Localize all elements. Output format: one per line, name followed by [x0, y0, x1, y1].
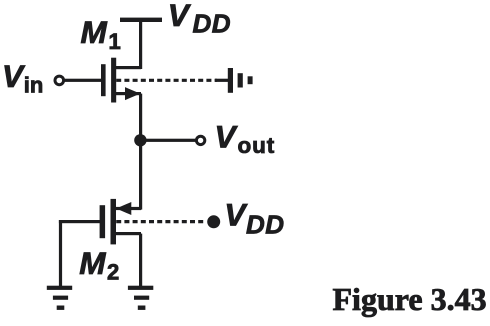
wire Vin to M1 gate: [64, 79, 102, 82]
transistor M1 (NMOS): [101, 58, 141, 103]
svg-text:V: V: [168, 0, 192, 33]
svg-text:DD: DD: [193, 9, 232, 39]
label VDD (M2 bulk): [224, 197, 284, 240]
wire M2 drain to ground: [139, 234, 142, 287]
svg-text:M: M: [79, 245, 106, 281]
wire M2 gate lead: [59, 220, 101, 223]
ground (left, M2 gate): [47, 286, 72, 310]
svg-text:in: in: [24, 72, 44, 97]
terminal Vin (open circle): [55, 76, 64, 85]
svg-text:M: M: [81, 14, 108, 50]
bulk wire of M1 (dashed): [116, 79, 228, 82]
wire M2 gate to ground: [59, 220, 62, 286]
svg-text:V: V: [224, 197, 248, 233]
svg-text:DD: DD: [246, 209, 285, 239]
label Vin: [2, 58, 43, 98]
node Vout (junction dot): [134, 134, 146, 146]
node VDD (M2 bulk dot): [207, 215, 220, 228]
label M1: [81, 14, 121, 54]
VDD supply rail bar: [120, 18, 162, 22]
bulk wire of M2 (dashed): [116, 220, 204, 223]
svg-text:out: out: [238, 133, 276, 158]
terminal Vout (open circle): [196, 136, 204, 144]
ground (right, M2 drain): [128, 286, 153, 310]
label M2: [79, 245, 119, 285]
label VDD (top): [168, 0, 231, 39]
label Vout: [215, 119, 276, 159]
svg-text:Figure 3.43: Figure 3.43: [333, 281, 487, 317]
svg-text:2: 2: [107, 259, 119, 284]
wire Vout node to terminal: [140, 139, 196, 142]
wire M1 source to M2 source: [139, 94, 142, 210]
wire VDD rail to M1 drain: [139, 19, 142, 69]
svg-text:1: 1: [109, 29, 121, 54]
svg-text:V: V: [215, 119, 239, 155]
caption Figure 3.43: [333, 281, 487, 317]
svg-text:V: V: [2, 58, 26, 94]
ground symbol (M1 bulk, sideways): [228, 68, 253, 93]
transistor M2 (PMOS): [100, 199, 141, 245]
